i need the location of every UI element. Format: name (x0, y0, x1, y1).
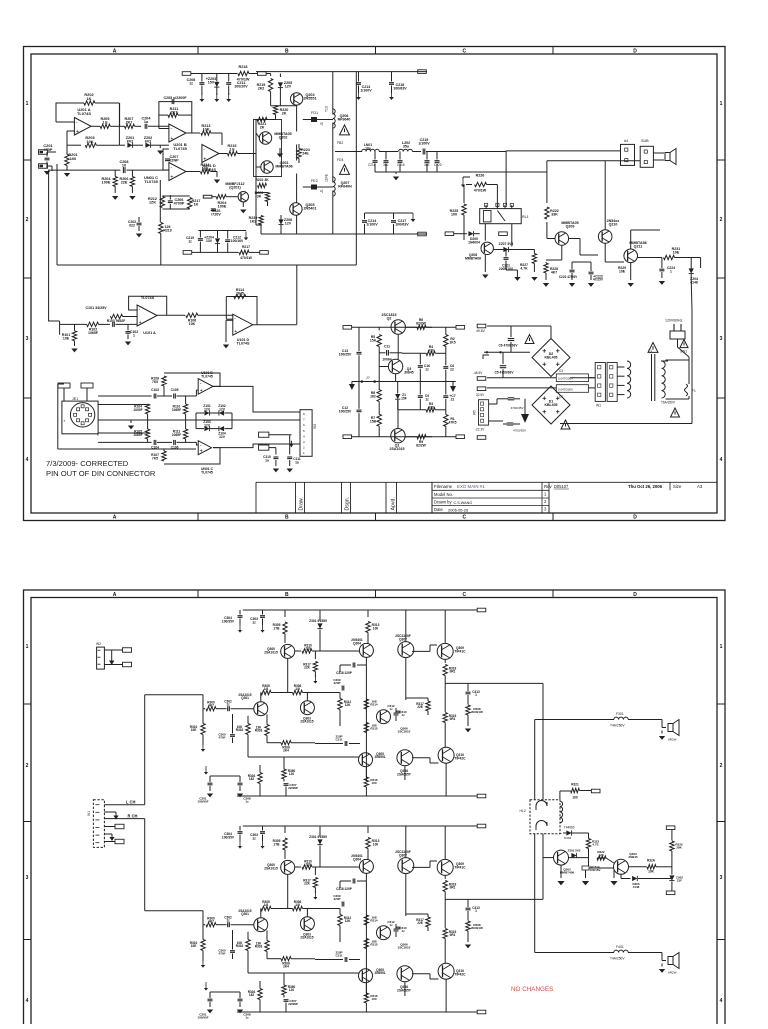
svg-text:11FE: 11FE (325, 173, 329, 182)
svg-text:Draw.: Draw. (299, 497, 305, 510)
svg-text:C6 4700/63V: C6 4700/63V (498, 344, 518, 348)
svg-text:120: 120 (289, 772, 295, 776)
svg-text:15A: 15A (370, 338, 377, 342)
svg-text:SUB: SUB (641, 139, 649, 143)
svg-text:C5 4700/63V: C5 4700/63V (494, 371, 514, 375)
svg-text:0R1: 0R1 (450, 886, 456, 890)
svg-text:4: 4 (303, 434, 305, 438)
svg-text:100: 100 (371, 997, 376, 1001)
svg-text:Q301: Q301 (241, 912, 249, 916)
svg-text:100/63V: 100/63V (393, 87, 407, 91)
svg-text:u]: u] (320, 189, 323, 193)
svg-text:TIP41C: TIP41C (454, 865, 466, 869)
svg-text:1065F: 1065F (172, 433, 181, 437)
svg-text:-: - (139, 307, 141, 313)
svg-text:30845: 30845 (404, 370, 414, 374)
svg-text:1z: 1z (189, 82, 193, 86)
svg-text:120: 120 (289, 988, 295, 992)
svg-text:Q304: Q304 (353, 641, 361, 645)
svg-text:KBL405: KBL405 (544, 356, 557, 360)
svg-text:TL0745: TL0745 (201, 374, 213, 378)
svg-text:C106: C106 (171, 446, 179, 450)
svg-text:1065F: 1065F (133, 433, 142, 437)
svg-text:100E: 100E (102, 181, 111, 185)
svg-text:R315: R315 (370, 727, 378, 731)
svg-text:470F: 470F (219, 736, 226, 740)
svg-text:Z301 6V855: Z301 6V855 (309, 619, 327, 623)
svg-text:Q2: Q2 (387, 317, 392, 321)
svg-text:R314: R314 (370, 919, 378, 923)
svg-text:4700P: 4700P (174, 202, 185, 206)
svg-text:32.5V: 32.5V (476, 393, 485, 397)
svg-text:Z301 5V3: Z301 5V3 (568, 849, 581, 853)
svg-text:100: 100 (373, 626, 379, 630)
svg-text:22E: 22E (417, 921, 423, 925)
svg-text:2K2: 2K2 (258, 87, 265, 91)
svg-text:100/50F: 100/50F (197, 800, 208, 804)
svg-text:C11: C11 (384, 345, 390, 349)
svg-text:15F: 15F (401, 396, 407, 400)
svg-text:100/35V: 100/35V (222, 835, 235, 839)
svg-text:3: 3 (26, 875, 29, 881)
svg-text:100/50F: 100/50F (197, 1016, 208, 1020)
svg-text:FD4: FD4 (337, 158, 343, 162)
svg-text:1z: 1z (401, 713, 405, 717)
svg-text:C215: C215 (368, 163, 376, 167)
svg-text:1u: 1u (265, 458, 269, 462)
svg-text:Q301: Q301 (241, 696, 249, 700)
svg-text:2SC1815: 2SC1815 (398, 730, 411, 734)
svg-text:1 E: 1 E (102, 121, 108, 125)
svg-text:W33/1W: W33/1W (471, 926, 483, 930)
svg-text:22K: 22K (304, 882, 311, 886)
svg-text:MMBTA06: MMBTA06 (275, 165, 292, 169)
svg-text:RF9640: RF9640 (338, 118, 351, 122)
svg-text:W2: W2 (96, 642, 101, 646)
svg-text:R219: R219 (163, 229, 171, 233)
svg-text:10E: 10E (191, 728, 197, 732)
svg-text:7K5: 7K5 (152, 380, 158, 384)
svg-text:R315: R315 (370, 943, 378, 947)
svg-text:1: 1 (670, 269, 672, 273)
svg-text:1/8: 1/8 (295, 903, 300, 907)
svg-text:Dsgn.: Dsgn. (345, 497, 351, 511)
svg-text:1z: 1z (425, 367, 429, 371)
svg-text:MMBT406: MMBT406 (560, 871, 575, 875)
svg-text:100/20V: 100/20V (234, 85, 248, 89)
svg-text:2SA1015: 2SA1015 (300, 720, 313, 724)
svg-text:22NNP: 22NNP (288, 1002, 298, 1006)
svg-text:1 E: 1 E (229, 148, 235, 152)
svg-text:-: - (234, 316, 236, 322)
svg-text:10: 10 (122, 164, 126, 168)
svg-text:4: 4 (720, 457, 723, 463)
svg-text:+: + (139, 320, 142, 326)
svg-text:2N5551: 2N5551 (374, 971, 385, 975)
svg-text:1000F: 1000F (133, 408, 142, 412)
svg-text:29K: 29K (676, 846, 682, 850)
svg-text:-48.5V: -48.5V (473, 371, 483, 375)
svg-text:22NP: 22NP (169, 159, 179, 163)
svg-text:FE2: FE2 (311, 179, 318, 183)
svg-text:C311: C311 (335, 954, 342, 958)
svg-text:1: 1 (720, 644, 723, 650)
svg-text:4K7: 4K7 (208, 920, 214, 924)
svg-text:L CH: L CH (126, 800, 135, 805)
svg-text:C: C (462, 49, 466, 55)
svg-text:W1: W1 (596, 404, 601, 408)
svg-text:470P: 470P (44, 148, 53, 152)
svg-text:100: 100 (371, 781, 376, 785)
svg-text:Q209: Q209 (566, 225, 575, 229)
svg-text:10E: 10E (63, 337, 70, 341)
svg-text:2N5551: 2N5551 (303, 97, 316, 101)
svg-text:R103 5652F: R103 5652F (107, 319, 126, 323)
svg-text:10K: 10K (648, 870, 655, 874)
svg-text:22E: 22E (121, 181, 128, 185)
svg-text:22: 22 (450, 367, 454, 371)
svg-text:TIP42C: TIP42C (454, 972, 466, 976)
svg-text:1z: 1z (226, 703, 230, 707)
svg-text:300: 300 (383, 163, 389, 167)
svg-text:+: + (234, 329, 237, 335)
svg-text:Z207 3V3: Z207 3V3 (499, 242, 514, 246)
svg-text:2K4: 2K4 (283, 749, 289, 753)
svg-text:100/35V: 100/35V (222, 619, 235, 623)
svg-text:1K2: 1K2 (250, 220, 257, 224)
svg-text:Date: Date (434, 507, 443, 512)
svg-text:J?: J? (366, 376, 370, 380)
svg-text:27B: 27B (274, 626, 281, 630)
svg-text:1z: 1z (245, 800, 249, 804)
svg-text:Apvd.: Apvd. (391, 497, 397, 510)
svg-text:R303: R303 (255, 729, 263, 733)
svg-text:27B: 27B (274, 842, 281, 846)
svg-text:1u: 1u (144, 120, 149, 124)
svg-text:1z: 1z (226, 919, 230, 923)
svg-text:182: 182 (249, 777, 255, 781)
svg-text:0R1: 0R1 (450, 933, 456, 937)
svg-text:T13: T13 (325, 106, 329, 112)
svg-text:0R1: 0R1 (450, 670, 456, 674)
svg-text:220: 220 (305, 863, 311, 867)
svg-text:Q211: Q211 (634, 245, 643, 249)
svg-text:4148: 4148 (633, 885, 640, 889)
svg-text:F301: F301 (616, 712, 624, 716)
svg-text:C222 47/25V: C222 47/25V (559, 275, 578, 279)
svg-text:100: 100 (572, 796, 578, 800)
svg-text:+: + (203, 157, 206, 163)
svg-text:1/8: 1/8 (295, 687, 300, 691)
svg-text:R218: R218 (239, 65, 248, 69)
svg-text:10E: 10E (619, 269, 626, 273)
svg-text:1: 1 (475, 909, 477, 913)
svg-text:HL2: HL2 (520, 809, 526, 813)
svg-text:24E: 24E (302, 152, 309, 156)
svg-text:1065F: 1065F (88, 331, 99, 335)
svg-text:FD1: FD1 (311, 111, 318, 115)
svg-text:A: A (113, 592, 117, 598)
svg-text:100/63V: 100/63V (395, 223, 409, 227)
svg-text:33K: 33K (551, 213, 558, 217)
svg-text:W5: W5 (473, 410, 477, 415)
svg-text:B: B (285, 49, 289, 55)
svg-text:-: - (76, 120, 78, 126)
svg-text:49.8V: 49.8V (476, 329, 486, 333)
svg-text:TL0745: TL0745 (173, 146, 187, 151)
svg-text:10u: 10u (365, 146, 371, 150)
svg-text:6V2: 6V2 (127, 140, 134, 144)
svg-text:2SA1015: 2SA1015 (300, 936, 313, 940)
svg-text:7/3/2009- CORRECTED: 7/3/2009- CORRECTED (46, 459, 129, 468)
svg-text:7K5: 7K5 (152, 456, 158, 460)
svg-text:470/1W: 470/1W (474, 189, 487, 193)
svg-text:R32A: R32A (647, 859, 656, 863)
svg-text:1K: 1K (87, 97, 92, 101)
svg-text:12K: 12K (345, 919, 352, 923)
svg-text:A: A (113, 515, 117, 521)
svg-text:1z: 1z (188, 239, 192, 243)
svg-text:4.7K: 4.7K (520, 266, 528, 270)
svg-text:0R1: 0R1 (450, 717, 456, 721)
svg-text:12V: 12V (285, 85, 292, 89)
svg-text:30E: 30E (424, 163, 430, 167)
svg-text:22: 22 (451, 397, 455, 401)
svg-text:Rev: Rev (544, 484, 552, 489)
svg-text:4700/35V: 4700/35V (513, 429, 527, 433)
svg-text:022: 022 (129, 224, 135, 228)
svg-text:Size: Size (673, 484, 682, 489)
svg-text:A: A (113, 49, 117, 55)
svg-text:JE1: JE1 (72, 397, 78, 401)
svg-text:1065F: 1065F (172, 408, 181, 412)
svg-text:PIN OUT OF DIN CONNECTOR: PIN OUT OF DIN CONNECTOR (46, 469, 156, 478)
svg-text:TIP42C: TIP42C (454, 756, 466, 760)
svg-text:6V2: 6V2 (145, 140, 152, 144)
svg-text:TIP41C: TIP41C (454, 649, 466, 653)
svg-text:2SA1015: 2SA1015 (264, 866, 278, 870)
svg-text:2SA1015: 2SA1015 (264, 650, 278, 654)
svg-text:8R2W: 8R2W (668, 738, 677, 742)
svg-text:u]: u] (320, 122, 323, 126)
svg-text:1K: 1K (194, 203, 199, 207)
svg-text:RL1: RL1 (522, 215, 529, 219)
svg-text:R303: R303 (255, 945, 263, 949)
svg-text:470/1W: 470/1W (240, 256, 252, 260)
svg-text:1z: 1z (252, 620, 256, 624)
svg-text:12V: 12V (204, 423, 211, 427)
svg-text:C105: C105 (171, 388, 179, 392)
svg-text:12V: 12V (219, 407, 226, 411)
svg-text:1/8: 1/8 (264, 903, 269, 907)
svg-text:2K: 2K (260, 126, 265, 130)
svg-text:100: 100 (373, 842, 379, 846)
svg-text:D: D (633, 515, 637, 521)
svg-text:-: - (203, 147, 205, 153)
svg-text:*: * (97, 433, 99, 438)
svg-text:120: 120 (598, 853, 603, 857)
svg-text:1K5: 1K5 (449, 340, 455, 344)
svg-text:TL0745: TL0745 (144, 179, 158, 184)
svg-text:#4: #4 (624, 139, 628, 143)
svg-text:C104: C104 (151, 446, 159, 450)
svg-text:3K: 3K (257, 195, 262, 199)
svg-text:220P: 220P (333, 897, 340, 901)
svg-text:10E: 10E (191, 944, 197, 948)
svg-text:C.S.WANG: C.S.WANG (454, 501, 473, 505)
svg-text:47/25V: 47/25V (593, 278, 604, 282)
svg-text:1z: 1z (252, 836, 256, 840)
svg-text:21F: 21F (677, 879, 682, 883)
svg-text:R222 3K: R222 3K (255, 178, 269, 182)
svg-text:1z: 1z (389, 923, 393, 927)
svg-text:4K7: 4K7 (551, 270, 557, 274)
svg-text:220: 220 (305, 647, 311, 651)
svg-text:+: + (170, 175, 173, 181)
svg-text:T6A/250V: T6A/250V (661, 401, 676, 405)
svg-text:1: 1 (133, 334, 135, 338)
svg-text:C220: C220 (434, 163, 442, 167)
svg-text:2N5401: 2N5401 (303, 207, 316, 211)
svg-text:7: 7 (303, 418, 305, 422)
svg-text:R CH: R CH (128, 814, 138, 819)
svg-text:+: + (76, 129, 79, 135)
svg-text:10K: 10K (86, 140, 93, 144)
svg-text:1ZK: 1ZK (149, 201, 156, 205)
svg-text:82/2W: 82/2W (416, 321, 427, 325)
svg-text:C: C (462, 592, 466, 598)
svg-text:-: - (170, 126, 172, 132)
svg-text:F1: F1 (692, 389, 696, 393)
svg-text:100/16V: 100/16V (231, 239, 244, 243)
svg-text:W33/1W: W33/1W (471, 710, 483, 714)
svg-text:100/25V: 100/25V (339, 409, 352, 413)
svg-text:4148: 4148 (690, 280, 698, 284)
svg-text:4: 4 (26, 457, 29, 463)
svg-text:1u: 1u (295, 460, 299, 464)
svg-text:2SB45: 2SB45 (628, 855, 638, 859)
svg-text:182: 182 (370, 394, 376, 398)
svg-text:B: B (285, 515, 289, 521)
svg-text:1z: 1z (425, 397, 429, 401)
svg-text:10K: 10K (202, 167, 209, 171)
svg-text:*: * (64, 419, 66, 424)
svg-text:B: B (285, 592, 289, 598)
svg-text:22NNP: 22NNP (288, 786, 298, 790)
svg-text:R302: R302 (236, 944, 244, 948)
svg-text:1z: 1z (401, 929, 405, 933)
svg-text:1: 1 (303, 451, 305, 455)
svg-text:C318 220P: C318 220P (336, 887, 352, 891)
svg-text:2: 2 (26, 217, 29, 223)
svg-text:Q210: Q210 (609, 223, 618, 227)
svg-text:1: 1 (26, 101, 29, 107)
svg-text:C3: C3 (559, 369, 563, 373)
svg-text:T44660: T44660 (564, 826, 575, 830)
svg-text:2SC1815: 2SC1815 (398, 946, 411, 950)
svg-text:2: 2 (720, 763, 723, 769)
svg-text:2: 2 (26, 763, 29, 769)
svg-text:3: 3 (303, 440, 305, 444)
svg-text:13V: 13V (206, 239, 213, 243)
svg-text:NO CHANGES: NO CHANGES (511, 986, 553, 993)
svg-text:MMBTA06: MMBTA06 (465, 256, 481, 260)
svg-text:2SA1015: 2SA1015 (389, 447, 404, 451)
svg-text:1/8: 1/8 (264, 687, 269, 691)
svg-text:82/2W: 82/2W (416, 443, 427, 447)
svg-text:15V: 15V (208, 81, 215, 85)
svg-text:10E: 10E (673, 251, 680, 255)
svg-text:4.7E: 4.7E (592, 843, 598, 847)
svg-text:100: 100 (451, 213, 457, 217)
svg-text:D: D (633, 592, 637, 598)
svg-text:1/100V: 1/100V (360, 89, 372, 93)
svg-text:C101 33/25V: C101 33/25V (85, 306, 107, 310)
svg-text:Model No.: Model No. (434, 492, 453, 497)
svg-text:-22.3V: -22.3V (475, 428, 485, 432)
svg-text:R226: R226 (476, 174, 485, 178)
svg-text:100: 100 (70, 157, 76, 161)
svg-text:3: 3 (720, 875, 723, 881)
svg-text:2K: 2K (282, 112, 287, 116)
svg-text:182: 182 (249, 993, 255, 997)
svg-text:6: 6 (303, 423, 305, 427)
svg-text:22K: 22K (304, 666, 311, 670)
svg-text:0.047/200V: 0.047/200V (558, 377, 573, 381)
svg-text:C205 u/2200F: C205 u/2200F (163, 96, 187, 100)
svg-text:+: + (200, 388, 203, 394)
svg-text:2K7: 2K7 (126, 121, 133, 125)
svg-text:C311: C311 (335, 738, 342, 742)
svg-text:C103: C103 (151, 388, 159, 392)
svg-text:D05107: D05107 (554, 484, 569, 489)
svg-text:C318 220P: C318 220P (336, 671, 352, 675)
svg-text:W1: W1 (87, 811, 91, 816)
svg-text:0.047/200V: 0.047/200V (558, 387, 573, 391)
svg-text:T4A/250V: T4A/250V (610, 724, 625, 728)
svg-text:12V: 12V (285, 222, 292, 226)
svg-text:Filename: Filename (434, 484, 453, 489)
svg-text:(Q201): (Q201) (229, 186, 241, 190)
svg-text:Drawn by: Drawn by (434, 500, 452, 505)
svg-text:R314: R314 (370, 703, 378, 707)
svg-text:1: 1 (475, 693, 477, 697)
svg-text:W3: W3 (313, 424, 317, 429)
svg-text:12K: 12K (345, 703, 352, 707)
svg-text:D: D (633, 49, 637, 55)
svg-text:T4A/250V: T4A/250V (610, 957, 625, 961)
svg-text:TL074S: TL074S (77, 111, 91, 116)
svg-text:C216: C216 (397, 163, 405, 167)
svg-text:1z: 1z (389, 707, 393, 711)
svg-text:FB2: FB2 (337, 141, 343, 145)
svg-text:1: 1 (26, 644, 29, 650)
svg-text:R217: R217 (242, 245, 250, 249)
svg-text:10K: 10K (189, 322, 196, 326)
svg-text:15B: 15B (370, 419, 377, 423)
svg-text:Thu Oct 26, 2006: Thu Oct 26, 2006 (628, 484, 663, 489)
svg-text:220P: 220P (333, 681, 340, 685)
svg-text:/720V: /720V (211, 213, 221, 217)
svg-text:-: - (170, 165, 172, 171)
svg-text:8: 8 (303, 412, 305, 416)
svg-text:10K: 10K (203, 128, 210, 132)
svg-text:1N4004: 1N4004 (468, 240, 480, 244)
svg-text:2: 2 (303, 446, 305, 450)
svg-text:U101 A: U101 A (143, 331, 156, 335)
svg-text:TL074S: TL074S (237, 342, 250, 346)
svg-text:F401: F401 (616, 945, 624, 949)
